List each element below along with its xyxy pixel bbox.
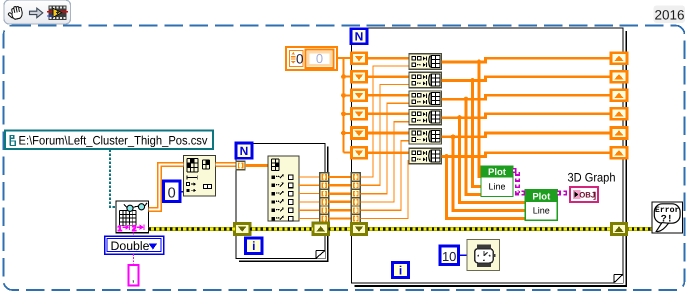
svg-text:Line: Line bbox=[488, 182, 505, 192]
shift register to Build Array wires bbox=[367, 57, 410, 60]
Build Array output wires to right shift registers bbox=[442, 58, 612, 62]
svg-text:3D Graph: 3D Graph bbox=[568, 171, 616, 185]
for loop 2 frame bbox=[352, 28, 624, 283]
loop 2 input tunnels bbox=[351, 173, 360, 181]
2D array wire to loop 1 bbox=[216, 162, 237, 167]
loop 2 right shift registers bbox=[611, 53, 627, 64]
property node Plot.Line 1 bbox=[481, 166, 513, 197]
tools palette window bbox=[4, 0, 71, 24]
svg-text:N: N bbox=[240, 144, 249, 158]
Index Array node (6 outputs) bbox=[268, 156, 299, 221]
svg-text:2: 2 bbox=[132, 224, 137, 233]
svg-text:Plot: Plot bbox=[488, 167, 507, 178]
svg-text:N: N bbox=[355, 30, 364, 44]
loop 1 count terminal N bbox=[236, 143, 252, 158]
error wire bbox=[149, 227, 235, 231]
branch wires to plot property nodes bbox=[479, 62, 481, 177]
svg-text:10: 10 bbox=[442, 249, 456, 264]
loop 1 input tunnel bbox=[236, 161, 245, 169]
scalar risers to Build Array inputs bbox=[360, 66, 409, 177]
initializer wire to left shift registers bbox=[337, 58, 344, 153]
delimiter string constant , bbox=[133, 254, 135, 265]
svg-text:1: 1 bbox=[118, 224, 123, 233]
path wire bbox=[110, 150, 116, 207]
for loop 1 frame bbox=[236, 144, 325, 259]
path constant E:\Forum\Left_Cluster_Thigh_Pos.csv bbox=[5, 131, 213, 150]
svg-text:Double: Double bbox=[111, 239, 150, 253]
Wait Until Next ms Multiple bbox=[467, 240, 500, 271]
Read Delimited Spreadsheet VI bbox=[116, 201, 149, 233]
property node Plot.Line 2 bbox=[525, 190, 557, 221]
svg-text:E:\Forum\Left_Cluster_Thigh_Po: E:\Forum\Left_Cluster_Thigh_Pos.csv bbox=[19, 134, 209, 148]
svg-text:?!: ?! bbox=[661, 214, 673, 225]
Array Subset node bbox=[184, 156, 216, 196]
loop 1 error shift registers bbox=[235, 223, 250, 234]
Simple Error Handler icon bbox=[652, 202, 683, 233]
operate tool (hand icon) bbox=[7, 5, 24, 20]
loop 2 error shift registers bbox=[351, 223, 366, 234]
svg-text:Plot: Plot bbox=[532, 191, 551, 202]
Build Array nodes bbox=[409, 54, 442, 69]
VI film icon bbox=[49, 6, 67, 21]
svg-text:0: 0 bbox=[316, 51, 323, 66]
empty array constant (initializer) bbox=[286, 47, 337, 70]
svg-text:0: 0 bbox=[296, 51, 304, 66]
loop 1 output tunnels bbox=[320, 173, 329, 181]
1D row wire to Index Array bbox=[245, 164, 268, 167]
numeric constant 10 (wait ms) bbox=[440, 246, 459, 265]
svg-text:i: i bbox=[252, 239, 255, 253]
svg-text:,: , bbox=[132, 273, 135, 285]
polymorphic selector Double bbox=[133, 233, 135, 236]
loop 2 count terminal N bbox=[351, 29, 367, 44]
LabVIEW version label 2016 bbox=[654, 6, 686, 24]
loop 1 iteration terminal i bbox=[246, 238, 263, 254]
numeric constant 0 (offset) bbox=[164, 181, 181, 202]
svg-text:Line: Line bbox=[533, 206, 550, 216]
loop 2 iteration terminal i bbox=[393, 263, 409, 278]
3D graph object refnum OBJ bbox=[570, 187, 598, 202]
svg-text:]: ] bbox=[593, 190, 596, 200]
wires loop1 to loop2 (1D arrays) bbox=[329, 176, 352, 178]
svg-text:0: 0 bbox=[168, 185, 176, 201]
object reference chain wire bbox=[513, 171, 525, 193]
svg-text:i: i bbox=[399, 263, 402, 277]
2D array wire from Read VI to Array Subset bbox=[149, 165, 184, 210]
position tool (arrow icon) bbox=[30, 8, 43, 18]
loop 2 left shift registers bbox=[352, 53, 367, 64]
svg-text:2016: 2016 bbox=[654, 7, 684, 22]
